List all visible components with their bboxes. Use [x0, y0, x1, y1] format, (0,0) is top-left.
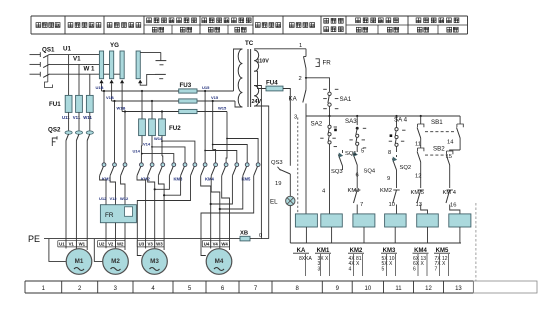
contactor coil KM1	[321, 214, 343, 227]
svg-text:6: 6	[356, 173, 359, 179]
svg-text:FU3: FU3	[180, 82, 192, 89]
svg-text:V15: V15	[211, 95, 219, 100]
wires QS2 to motor M1	[66, 141, 87, 251]
wire bus U to TC primary top	[234, 49, 243, 91]
label QS1	[42, 47, 55, 54]
wire branch to KM3 contact 3	[161, 140, 195, 163]
header cell 低压照明	[255, 23, 280, 28]
wires FR to motor M2	[106, 223, 125, 250]
switch QS2	[52, 131, 93, 146]
wire lamp to 0 bus	[289, 206, 291, 243]
push button SB2	[417, 148, 460, 188]
label V1B	[106, 95, 114, 100]
wire PE to M1	[49, 239, 66, 262]
connector arrows under YG	[99, 80, 142, 84]
cross reference table KM3	[381, 248, 397, 276]
label 14	[447, 140, 454, 146]
wire node2 branch to SA1	[305, 77, 330, 92]
wire TC 110V bottom to FU4	[254, 71, 266, 88]
svg-text:V14: V14	[143, 142, 151, 147]
switch QS1	[30, 52, 53, 87]
wire taps bus to FU2	[141, 90, 163, 119]
contactor coil KM4	[417, 214, 439, 227]
svg-text:V12: V12	[110, 196, 118, 201]
motor terminal labels U2 V2 W2	[98, 241, 126, 247]
bus line W	[122, 83, 227, 111]
svg-text:SA3: SA3	[345, 118, 357, 125]
wire phase W1	[50, 73, 121, 75]
cross reference table KA	[293, 248, 312, 276]
header table frame	[31, 16, 468, 34]
label W14 right	[0, 0, 1, 1]
svg-text:10: 10	[365, 286, 372, 292]
motor M4	[206, 249, 232, 275]
label 110V	[257, 59, 270, 65]
label KM5 contacts	[242, 177, 252, 182]
svg-text:SA1: SA1	[340, 96, 352, 103]
header cell 冷却泵电机	[68, 23, 101, 28]
label QS3	[271, 160, 283, 166]
label SA1	[340, 96, 352, 103]
node 2	[299, 76, 302, 82]
svg-text:U15: U15	[202, 85, 210, 90]
wire labels U15 V15 W15	[202, 85, 227, 111]
wire PE to M2	[94, 239, 102, 262]
svg-text:5: 5	[382, 266, 385, 272]
svg-text:U3: U3	[139, 242, 145, 247]
wires FU2 to KM2 contacts	[141, 136, 162, 163]
selector switch SA3	[349, 116, 366, 149]
label 4	[322, 189, 326, 195]
contactor KM1 main contacts	[100, 163, 127, 176]
wire FU1 to QS2	[69, 112, 90, 131]
header cell 电源开关	[36, 23, 60, 28]
label SB2	[433, 146, 445, 153]
label FU2	[169, 125, 181, 132]
limit switch contact SQ1	[353, 149, 358, 188]
svg-text:U12: U12	[99, 196, 107, 201]
wire labels U11 V11 W11	[62, 115, 93, 120]
contactor coil KM3	[385, 214, 407, 227]
switch QS3	[278, 167, 291, 196]
svg-text:XB: XB	[240, 231, 248, 237]
svg-text:V1: V1	[69, 242, 75, 247]
thermal relay contact FR	[304, 57, 320, 77]
bus line U (to FU3 and TC)	[102, 83, 234, 91]
contactor coil KA	[295, 214, 317, 227]
svg-text:YG: YG	[110, 42, 119, 49]
label SA4	[394, 117, 408, 124]
wire U1 drop to FU1	[68, 55, 70, 96]
svg-text:M3: M3	[150, 258, 159, 265]
header cell 立柱松紧控制 / 夹紧 / 松开	[416, 18, 459, 32]
bus line V	[112, 83, 235, 101]
label FU1	[49, 101, 61, 108]
fuse group FU2	[139, 119, 166, 136]
wires KM2 outputs down to M3	[137, 176, 164, 250]
svg-text:V3: V3	[147, 242, 153, 247]
label SQ4	[364, 169, 376, 175]
label KM5 (interlock)	[411, 190, 425, 196]
label 0	[259, 233, 262, 239]
svg-text:110V: 110V	[257, 59, 270, 65]
svg-text:W3: W3	[156, 242, 163, 247]
label 9	[387, 176, 390, 182]
label XB	[240, 231, 248, 237]
motor M3	[142, 249, 168, 275]
interlock contact KM5 (NC)	[417, 190, 428, 214]
selector switch SA1	[323, 89, 338, 116]
svg-text:U14: U14	[133, 148, 141, 153]
label QS2	[48, 127, 61, 134]
svg-text:KM 4: KM 4	[443, 190, 457, 196]
label 5	[361, 149, 364, 155]
svg-text:W1B: W1B	[117, 106, 126, 111]
svg-text:1: 1	[299, 43, 302, 49]
wire crossover feed to KM5 contact 3	[226, 138, 258, 163]
svg-text:4: 4	[349, 266, 352, 272]
svg-text:W14: W14	[154, 136, 163, 141]
svg-text:W11: W11	[83, 115, 92, 120]
fuse FU4	[266, 86, 283, 91]
svg-text:V1: V1	[73, 56, 81, 63]
svg-text:13: 13	[455, 286, 462, 292]
svg-text:7: 7	[360, 202, 363, 208]
label 11	[415, 142, 421, 148]
wire TC 110V top to node 1	[254, 48, 306, 50]
svg-text:14: 14	[447, 140, 454, 146]
label 13	[416, 202, 422, 208]
svg-text:10: 10	[389, 202, 395, 208]
svg-text:3: 3	[318, 266, 321, 272]
wire FU4 to lamp column	[283, 89, 290, 166]
svg-text:FU1: FU1	[49, 101, 61, 108]
node 1	[299, 43, 306, 57]
svg-text:EL: EL	[270, 199, 278, 206]
svg-text:QS3: QS3	[271, 160, 283, 166]
svg-text:8: 8	[388, 150, 391, 156]
svg-text:TC: TC	[245, 40, 254, 47]
label KM4 (interlock)	[443, 190, 457, 196]
motor M2	[103, 249, 129, 275]
svg-text:V11: V11	[73, 115, 81, 120]
label W1B	[117, 106, 126, 111]
contactor coil KM2	[353, 214, 375, 227]
wire KM5 output 3 crossover	[201, 176, 254, 256]
svg-text:KM 5: KM 5	[411, 190, 425, 196]
label SQ2	[400, 165, 412, 171]
motor terminal labels U1 V1 W1	[58, 241, 87, 247]
svg-text:W1: W1	[79, 242, 86, 247]
svg-text:V4: V4	[213, 242, 219, 247]
surge unit YG bars	[99, 51, 140, 79]
label FU3	[180, 82, 192, 89]
label KM3 (interlock)	[348, 188, 360, 194]
wire TC 24V top terminal down	[254, 86, 261, 239]
label TC	[245, 40, 254, 47]
wire KM3 output 3 crossover	[137, 176, 190, 256]
label U14	[133, 148, 141, 153]
svg-text:15: 15	[446, 154, 452, 160]
svg-text:W12: W12	[120, 196, 129, 201]
label KM2 contacts	[141, 177, 151, 182]
motor terminal labels U3 V3 W3	[137, 241, 164, 247]
label KM1 contacts	[102, 177, 112, 182]
label EL	[270, 199, 278, 206]
wire tap bus W to KM4 group	[225, 112, 228, 163]
svg-text:12: 12	[425, 286, 432, 292]
wire TC 24V bottom terminal down to XB	[254, 106, 269, 239]
svg-text:13: 13	[416, 202, 422, 208]
wire branch to KM3 contact 1	[141, 153, 174, 163]
wire KM5 output 1 crossover	[210, 176, 233, 205]
socket XB	[240, 236, 250, 241]
label FU4	[266, 80, 278, 87]
wire KM3 output 2 crossover	[163, 176, 181, 197]
svg-text:16: 16	[450, 203, 456, 209]
svg-text:FU4: FU4	[266, 80, 278, 87]
wire branch to KM3 contact 2	[151, 146, 185, 163]
label SQ3	[331, 169, 343, 175]
wires bus to KM1 contacts	[103, 90, 126, 163]
svg-text:M2: M2	[111, 258, 120, 265]
label 8	[388, 150, 391, 156]
contactor KM2 main contacts	[137, 163, 165, 176]
label 16	[450, 203, 456, 209]
dashed linkage line	[297, 118, 299, 214]
wire KA coil to 0 bus	[305, 227, 307, 243]
svg-text:KM2: KM2	[380, 188, 392, 194]
push button SB1	[417, 116, 463, 150]
svg-text:FR: FR	[105, 212, 114, 219]
motor terminal labels U4 V4 W4	[202, 241, 229, 247]
svg-text:2: 2	[299, 76, 302, 82]
svg-text:9: 9	[387, 176, 390, 182]
label 6	[356, 173, 359, 179]
svg-text:V2: V2	[108, 242, 114, 247]
svg-text:3: 3	[294, 115, 297, 121]
svg-text:M4: M4	[215, 258, 224, 265]
wire KM3 coil to 0 bus	[394, 227, 396, 243]
svg-text:12: 12	[415, 174, 421, 180]
cross reference table KM4	[413, 248, 429, 276]
svg-text:W15: W15	[218, 106, 227, 111]
interlock contact KM3 (NC)	[354, 190, 361, 214]
label U1	[63, 46, 71, 53]
header cell 立柱松紧电动机 / 夹紧 / 松开	[202, 18, 251, 32]
wire tap bus U to KM4 group	[204, 90, 206, 163]
svg-text:U4: U4	[204, 242, 210, 247]
wire W1 drop to FU1	[89, 74, 91, 95]
svg-text:KM4: KM4	[205, 177, 215, 182]
label 10	[389, 202, 395, 208]
interlock contact KM4 (NC)	[446, 190, 460, 214]
wire KM2 coil to 0 bus	[363, 227, 365, 243]
motor M1	[66, 249, 92, 275]
wire bus3 corner to SB1 right	[459, 116, 461, 124]
wire KM5 coil to 0 bus	[459, 227, 461, 243]
svg-text:11: 11	[415, 142, 421, 148]
svg-text:U1: U1	[63, 46, 71, 53]
label KM4 contacts	[205, 177, 215, 182]
limit switch contact SQ2	[392, 155, 397, 188]
svg-text:M1: M1	[75, 258, 84, 265]
thermal relay FR heater box	[100, 205, 136, 223]
cross reference table KM5	[434, 248, 450, 276]
wire phase U1	[50, 54, 100, 56]
footer dashed continuation cell	[473, 281, 537, 293]
label V14	[143, 142, 151, 147]
svg-text:5: 5	[361, 149, 364, 155]
header cell 摇臂升降电动机 / 上升 / 下降	[147, 18, 197, 32]
wires KM1 contacts to FR	[100, 176, 125, 205]
wire KM3 output 1 crossover	[154, 176, 170, 191]
neutral bus 0	[290, 242, 461, 244]
svg-text:KM3: KM3	[348, 188, 360, 194]
label SA2	[311, 120, 323, 127]
label SB1	[431, 119, 443, 126]
wire KM5 output 2 crossover	[219, 176, 243, 210]
contactor KM4 main contacts	[201, 163, 228, 176]
wire KM1 coil to 0 bus	[331, 227, 333, 243]
footer column strip	[25, 281, 473, 293]
header cell 摇臂升降控制 / 上升 / 下降	[356, 18, 399, 32]
contactor coil KM5	[449, 214, 471, 227]
label SQ1	[345, 151, 357, 157]
svg-text:FR: FR	[323, 60, 332, 67]
svg-text:U1B: U1B	[96, 85, 104, 90]
label W14	[154, 136, 163, 141]
selector switch SA4	[389, 116, 406, 152]
svg-text:19: 19	[275, 181, 281, 187]
wire bus V to TC primary bottom	[235, 101, 242, 107]
cross reference table KM1	[315, 248, 331, 276]
node 3 control bus	[294, 115, 460, 121]
wire bus3 to KA coil	[305, 116, 307, 214]
wire phase V1	[50, 63, 110, 65]
svg-text:24V: 24V	[252, 99, 262, 105]
wires KM4 outputs down to M4	[201, 176, 230, 250]
label 15	[446, 154, 452, 160]
contactor KM5 main contacts	[232, 163, 260, 176]
svg-text:FU2: FU2	[169, 125, 181, 132]
svg-text:V1B: V1B	[106, 95, 114, 100]
wire tap bus V to KM4 group	[212, 100, 216, 163]
header cell 零压保护	[289, 23, 314, 28]
label PE	[28, 234, 40, 244]
selector switch SA2	[320, 116, 337, 214]
svg-text:SA2: SA2	[311, 120, 323, 127]
label 7	[360, 202, 363, 208]
wire V1 drop to FU1	[78, 64, 80, 95]
label YG	[110, 42, 119, 49]
wire KM4 coil to 0 bus	[427, 227, 429, 243]
interlock contact KM2 (NC)	[393, 190, 400, 214]
transformer TC	[238, 49, 259, 107]
svg-text:SB2: SB2	[433, 146, 445, 153]
wire crossover feed to KM5 contact 1	[204, 150, 237, 163]
fuse group FU3	[179, 89, 197, 114]
svg-text:QS2: QS2	[48, 127, 61, 134]
svg-text:SA 4: SA 4	[394, 117, 408, 124]
label KM3 contacts	[174, 177, 184, 182]
svg-text:6: 6	[413, 266, 416, 272]
header cell 主轴电机控制	[324, 18, 343, 31]
svg-text:W4: W4	[221, 242, 228, 247]
wire labels U12 V12 W12	[99, 196, 129, 201]
label W1	[84, 66, 96, 73]
lamp EL	[286, 196, 295, 205]
svg-text:KM3: KM3	[174, 177, 184, 182]
svg-text:SQ3: SQ3	[331, 169, 343, 175]
limit switch contact SQ3	[338, 150, 343, 170]
label FR (contact)	[323, 60, 332, 67]
label U1B	[96, 85, 104, 90]
svg-text:7: 7	[435, 266, 438, 272]
svg-text:PE: PE	[28, 234, 40, 244]
contactor KM3 main contacts	[169, 163, 196, 176]
svg-text:11: 11	[395, 286, 402, 292]
svg-text:SQ2: SQ2	[400, 165, 412, 171]
svg-text:W2: W2	[117, 242, 124, 247]
wire XB to 24V return	[250, 238, 269, 240]
header cell 主轴电动机	[107, 23, 141, 28]
svg-text:U1: U1	[59, 242, 65, 247]
label V1	[73, 56, 81, 63]
label 12	[415, 174, 421, 180]
svg-text:KA: KA	[289, 96, 298, 103]
label SA3	[345, 118, 357, 125]
svg-text:W 1: W 1	[84, 66, 96, 73]
label KM2 (interlock)	[380, 188, 392, 194]
svg-text:SQ1: SQ1	[345, 151, 357, 157]
label 19	[275, 181, 281, 187]
wire PE to M3 (via braid column)	[0, 0, 1, 1]
svg-text:0: 0	[259, 233, 262, 239]
ground symbol 2	[140, 74, 166, 85]
label KA (contact)	[289, 96, 298, 103]
svg-text:SQ4: SQ4	[364, 169, 376, 175]
ground symbol 1	[140, 52, 166, 64]
wire PE to M4	[0, 0, 1, 1]
relay contact KA	[303, 76, 306, 116]
svg-text:QS1: QS1	[42, 47, 55, 54]
cross reference table KM2	[348, 248, 364, 276]
svg-text:SB1: SB1	[431, 119, 443, 126]
wire crossover feed to KM5 contact 2	[212, 144, 247, 163]
svg-text:U2: U2	[99, 242, 105, 247]
protective earth line PE	[44, 238, 240, 240]
label 24V	[252, 99, 262, 105]
fuse group FU1	[65, 95, 93, 112]
